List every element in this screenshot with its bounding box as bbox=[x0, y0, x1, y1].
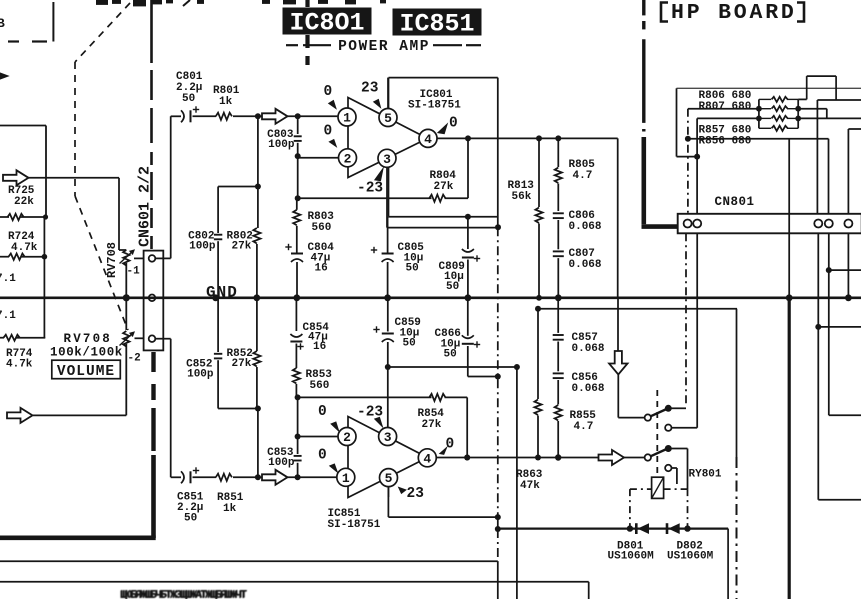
svg-text:0: 0 bbox=[318, 404, 327, 420]
svg-text:5: 5 bbox=[385, 471, 393, 486]
svg-text:0.068: 0.068 bbox=[572, 343, 605, 355]
svg-text:7.1: 7.1 bbox=[0, 273, 16, 285]
svg-text:56k: 56k bbox=[512, 191, 532, 203]
svg-text:16: 16 bbox=[315, 263, 328, 275]
svg-text:GND: GND bbox=[206, 284, 238, 302]
svg-text:IC851: IC851 bbox=[399, 10, 474, 39]
svg-text:CN601 2/2: CN601 2/2 bbox=[137, 166, 154, 247]
svg-text:3: 3 bbox=[384, 430, 392, 445]
svg-text:SI-18751: SI-18751 bbox=[328, 519, 381, 531]
svg-text:-23: -23 bbox=[357, 181, 383, 197]
svg-text:0: 0 bbox=[449, 116, 458, 132]
svg-text:100p: 100p bbox=[189, 241, 216, 253]
svg-text:0: 0 bbox=[446, 437, 455, 453]
svg-text:RV708: RV708 bbox=[64, 332, 113, 346]
svg-text:50: 50 bbox=[403, 338, 416, 350]
svg-text:16: 16 bbox=[313, 341, 326, 353]
svg-text:HP BOARD: HP BOARD bbox=[671, 1, 797, 25]
svg-text:R856 680: R856 680 bbox=[699, 136, 752, 148]
svg-text:560: 560 bbox=[310, 380, 330, 392]
svg-text:4: 4 bbox=[423, 451, 431, 466]
svg-text:VOLUME: VOLUME bbox=[57, 364, 115, 380]
svg-text:50: 50 bbox=[182, 93, 195, 105]
svg-text:POWER AMP: POWER AMP bbox=[338, 39, 430, 55]
svg-text:-1: -1 bbox=[127, 266, 141, 278]
svg-text:4.7: 4.7 bbox=[573, 170, 593, 182]
svg-text:47k: 47k bbox=[520, 480, 540, 492]
svg-text:SI-18751: SI-18751 bbox=[408, 100, 461, 112]
svg-text:1: 1 bbox=[342, 471, 350, 486]
svg-text:US1060M: US1060M bbox=[608, 551, 655, 563]
svg-text:100k/100k: 100k/100k bbox=[50, 346, 123, 360]
svg-text:RY801: RY801 bbox=[689, 469, 722, 481]
svg-text:50: 50 bbox=[446, 281, 459, 293]
svg-text:100p: 100p bbox=[268, 457, 295, 469]
svg-text:4: 4 bbox=[424, 132, 432, 147]
svg-text:27k: 27k bbox=[434, 181, 454, 193]
svg-text:27k: 27k bbox=[232, 241, 252, 253]
svg-text:0: 0 bbox=[318, 448, 327, 464]
svg-text:7.1: 7.1 bbox=[0, 310, 16, 322]
svg-text:0.068: 0.068 bbox=[572, 383, 605, 395]
svg-text:4.7k: 4.7k bbox=[11, 242, 38, 254]
svg-text:3: 3 bbox=[383, 152, 391, 167]
svg-text:US1060M: US1060M bbox=[667, 551, 714, 563]
svg-text:-2: -2 bbox=[128, 353, 141, 365]
svg-text:4.7k: 4.7k bbox=[6, 359, 33, 371]
svg-text:1k: 1k bbox=[223, 503, 237, 515]
svg-text:B: B bbox=[0, 16, 5, 31]
svg-text:IC8O1: IC8O1 bbox=[289, 9, 364, 38]
svg-text:50: 50 bbox=[406, 263, 419, 275]
svg-text:100p: 100p bbox=[268, 139, 295, 151]
svg-text:23: 23 bbox=[407, 486, 424, 502]
svg-text:23: 23 bbox=[361, 81, 378, 97]
svg-text:RV708: RV708 bbox=[105, 242, 119, 278]
svg-text:560: 560 bbox=[312, 222, 332, 234]
svg-text:2: 2 bbox=[343, 430, 351, 445]
svg-text:ЩЮБЯЖШБЧБТЖЗЩШЖАТЖЩБЯШЖЧТ: ЩЮБЯЖШБЧБТЖЗЩШЖАТЖЩБЯШЖЧТ bbox=[121, 589, 248, 599]
svg-text:27k: 27k bbox=[232, 358, 252, 370]
svg-text:R807 680: R807 680 bbox=[699, 101, 752, 113]
svg-text:27k: 27k bbox=[422, 419, 442, 431]
svg-text:0.068: 0.068 bbox=[569, 259, 602, 271]
svg-text:100p: 100p bbox=[187, 369, 214, 381]
svg-text:1k: 1k bbox=[219, 96, 233, 108]
svg-text:1: 1 bbox=[343, 111, 351, 126]
svg-text:50: 50 bbox=[444, 349, 457, 361]
svg-text:0: 0 bbox=[324, 124, 333, 140]
svg-text:CN801: CN801 bbox=[715, 195, 755, 209]
svg-text:4.7: 4.7 bbox=[574, 421, 594, 433]
svg-text:50: 50 bbox=[184, 513, 197, 525]
svg-text:22k: 22k bbox=[14, 196, 34, 208]
svg-text:2: 2 bbox=[344, 151, 352, 166]
svg-text:5: 5 bbox=[384, 111, 392, 126]
svg-text:0.068: 0.068 bbox=[569, 221, 602, 233]
svg-text:0: 0 bbox=[324, 84, 333, 100]
